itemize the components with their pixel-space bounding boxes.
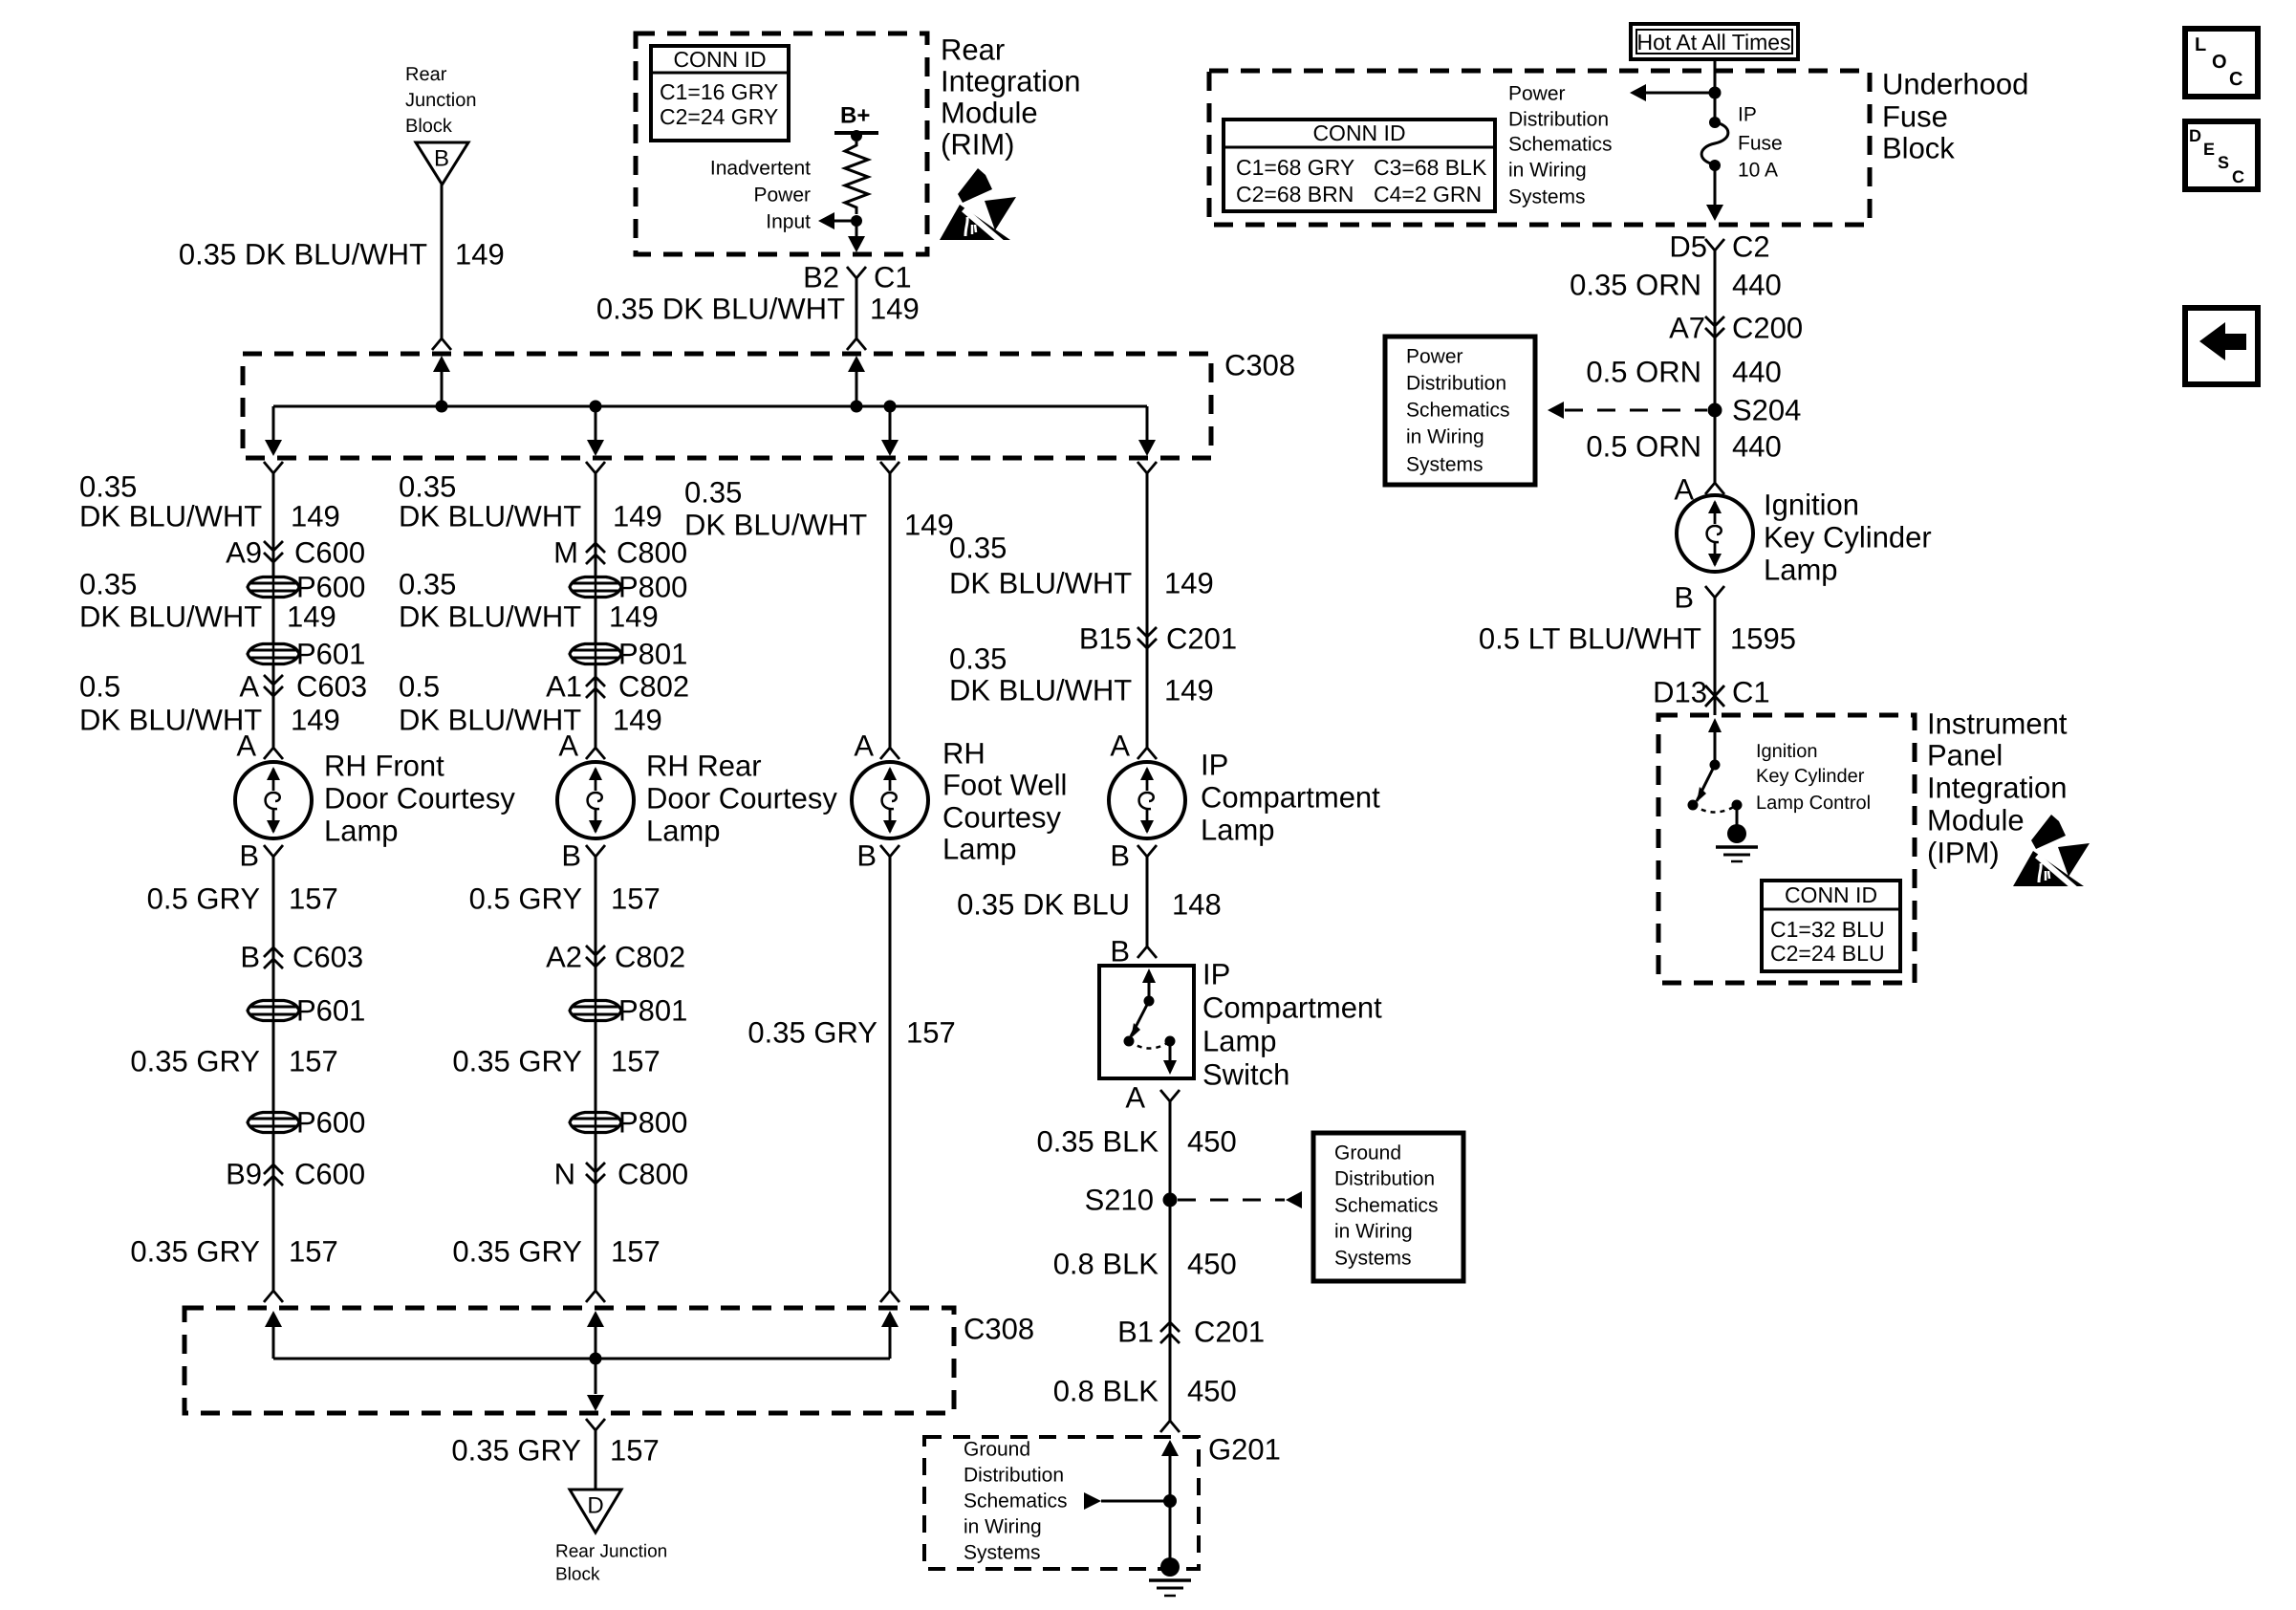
svg-text:CONN ID: CONN ID xyxy=(673,47,766,72)
svg-text:0.35 DK BLU/WHT: 0.35 DK BLU/WHT xyxy=(179,238,427,272)
svg-text:B: B xyxy=(1110,935,1130,968)
svg-text:A1: A1 xyxy=(546,670,582,704)
switch internal input pin arrow xyxy=(1142,968,1156,983)
arrow branch1 into bottom C308 xyxy=(265,1311,282,1327)
svg-text:Systems: Systems xyxy=(1406,454,1484,476)
svg-text:0.35 GRY: 0.35 GRY xyxy=(130,1045,260,1078)
wire branch2 through bottom C308 to exit xyxy=(595,1359,597,1394)
svg-text:0.35: 0.35 xyxy=(79,470,137,504)
svg-text:0.5 GRY: 0.5 GRY xyxy=(469,882,582,916)
arrow into C308 bus (B wire) xyxy=(433,356,450,372)
wire 149 from triangle B down to C308 xyxy=(441,185,444,338)
lamp control contact node (left) xyxy=(1688,800,1699,811)
svg-text:P601: P601 xyxy=(296,638,365,671)
reference box Ground Distribution Schematics in Wiring Systems (right) xyxy=(1313,1133,1463,1281)
LOC reference box xyxy=(2185,29,2258,97)
svg-text:N: N xyxy=(554,1158,575,1191)
svg-text:0.35: 0.35 xyxy=(684,476,742,510)
svg-text:B+: B+ xyxy=(840,103,870,129)
wire from Hot At All Times into fuse block xyxy=(1714,59,1717,120)
wire branch2 to rear junction block D xyxy=(595,1430,597,1490)
svg-text:0.35: 0.35 xyxy=(949,642,1007,676)
wire branch1 segment P600-P601 xyxy=(272,598,275,642)
svg-text:C603: C603 xyxy=(296,670,367,704)
svg-text:IP: IP xyxy=(1202,958,1230,991)
pass-through P801 (branch2 lower) xyxy=(570,1001,621,1021)
svg-text:Power: Power xyxy=(1508,83,1566,105)
switch internal output pin arrow xyxy=(1169,1041,1172,1063)
svg-text:0.35 GRY: 0.35 GRY xyxy=(452,1235,582,1269)
svg-text:Lamp: Lamp xyxy=(324,815,399,848)
svg-text:S204: S204 xyxy=(1732,394,1801,427)
svg-text:S: S xyxy=(2218,153,2229,172)
svg-text:P801: P801 xyxy=(618,994,687,1028)
svg-text:157: 157 xyxy=(289,1235,338,1269)
svg-text:Distribution: Distribution xyxy=(964,1465,1064,1487)
switch box IP Compartment Lamp Switch xyxy=(1099,966,1194,1078)
svg-text:A: A xyxy=(239,670,259,704)
svg-text:P800: P800 xyxy=(618,571,687,604)
svg-text:Integration: Integration xyxy=(1927,772,2068,805)
ground symbol inside IPM xyxy=(1736,805,1739,825)
node junction branch2 on bus xyxy=(590,401,602,413)
svg-text:Power: Power xyxy=(1406,346,1463,368)
svg-text:C1: C1 xyxy=(1732,676,1770,709)
svg-text:0.5 GRY: 0.5 GRY xyxy=(147,882,260,916)
svg-text:0.35 GRY: 0.35 GRY xyxy=(747,1016,877,1050)
svg-text:157: 157 xyxy=(906,1016,956,1050)
svg-text:A2: A2 xyxy=(546,941,582,974)
svg-text:B1: B1 xyxy=(1117,1316,1154,1349)
switch internal pivot node xyxy=(1144,996,1155,1007)
lamp RH Front Door Courtesy Lamp xyxy=(235,762,312,838)
svg-text:0.5: 0.5 xyxy=(79,670,120,704)
svg-text:B2: B2 xyxy=(803,261,839,294)
pass-through P600 (branch1 lower) xyxy=(248,1113,299,1133)
switch internal contact node (left) xyxy=(1124,1036,1135,1047)
svg-text:Power: Power xyxy=(753,185,811,207)
back-arrow box xyxy=(2185,308,2258,384)
ground symbol G201 xyxy=(1160,1557,1180,1577)
connector chevron branch4 below C308 xyxy=(1137,462,1157,473)
svg-text:C: C xyxy=(2232,167,2244,186)
svg-text:DK BLU/WHT: DK BLU/WHT xyxy=(949,567,1132,600)
svg-text:0.35: 0.35 xyxy=(399,470,456,504)
svg-text:P800: P800 xyxy=(618,1106,687,1140)
switch Ignition Key Cylinder Lamp Control pivot node xyxy=(1710,760,1721,771)
wire branch3 exit from C308 xyxy=(889,406,892,442)
svg-text:C600: C600 xyxy=(294,536,365,570)
svg-text:C603: C603 xyxy=(292,941,363,974)
svg-text:Ground: Ground xyxy=(1334,1142,1401,1164)
arrow branch2 exits bottom C308 xyxy=(587,1395,604,1411)
wire branch2 segment to lamp xyxy=(595,665,597,748)
svg-text:Fuse: Fuse xyxy=(1882,100,1948,134)
lamp RH Foot Well Courtesy Lamp xyxy=(852,762,928,838)
arrow to power distribution (left) xyxy=(1630,84,1646,101)
svg-text:149: 149 xyxy=(455,238,505,272)
arrow to Ground Distribution reference (left-pointing) xyxy=(1286,1191,1302,1208)
svg-text:C1=16 GRY: C1=16 GRY xyxy=(660,79,778,104)
svg-text:A: A xyxy=(854,729,874,763)
svg-text:149: 149 xyxy=(291,704,340,737)
svg-text:D: D xyxy=(587,1493,603,1519)
wire branch2 segment to P800 xyxy=(595,473,597,576)
wire branch2 to bottom C308 xyxy=(595,1134,597,1291)
module box Instrument Panel Integration Module dashed xyxy=(1658,715,1915,983)
svg-text:Underhood: Underhood xyxy=(1882,68,2028,101)
wire branch2 below lamp xyxy=(595,857,597,999)
svg-text:Lamp: Lamp xyxy=(1201,814,1275,847)
connector chevron branch3 below C308 xyxy=(880,462,899,473)
svg-text:Key Cylinder: Key Cylinder xyxy=(1756,766,1865,787)
svg-text:(IPM): (IPM) xyxy=(1927,837,2000,870)
svg-text:Lamp: Lamp xyxy=(942,833,1017,866)
node junction on ground wire xyxy=(1163,1494,1177,1508)
svg-text:Lamp Control: Lamp Control xyxy=(1756,793,1871,814)
wire branch2 exit from C308 xyxy=(595,406,597,442)
svg-text:C2: C2 xyxy=(1732,230,1770,264)
svg-text:Key Cylinder: Key Cylinder xyxy=(1764,521,1932,555)
B+ terminal bar and node xyxy=(834,131,878,135)
svg-text:Distribution: Distribution xyxy=(1508,109,1609,131)
wire branch2 segment P800-P801 xyxy=(595,598,597,642)
svg-text:DK BLU/WHT: DK BLU/WHT xyxy=(79,704,262,737)
svg-text:O: O xyxy=(2212,52,2227,73)
svg-text:IP: IP xyxy=(1201,749,1228,782)
svg-text:Schematics: Schematics xyxy=(1508,134,1613,156)
svg-text:0.5 ORN: 0.5 ORN xyxy=(1586,356,1701,389)
svg-text:148: 148 xyxy=(1172,888,1222,922)
svg-text:149: 149 xyxy=(613,704,662,737)
svg-text:0.35: 0.35 xyxy=(79,568,137,601)
svg-text:C4=2 GRN: C4=2 GRN xyxy=(1374,182,1482,207)
svg-text:157: 157 xyxy=(611,882,661,916)
svg-text:S210: S210 xyxy=(1085,1184,1154,1217)
svg-text:B: B xyxy=(434,146,449,172)
svg-text:Courtesy: Courtesy xyxy=(942,801,1062,835)
svg-text:Block: Block xyxy=(405,116,453,137)
svg-text:C3=68 BLK: C3=68 BLK xyxy=(1374,155,1487,180)
svg-text:149: 149 xyxy=(1164,674,1214,707)
connector Y symbol below RIM (B2/C1) xyxy=(847,267,866,278)
svg-text:0.5: 0.5 xyxy=(399,670,440,704)
resistor (inadvertent power pull-up) xyxy=(845,141,868,214)
pass-through P801 (branch2 upper) xyxy=(570,644,621,664)
svg-text:P801: P801 xyxy=(618,638,687,671)
connector chevron at C308 entry (RIM wire) xyxy=(847,338,866,350)
svg-text:Instrument: Instrument xyxy=(1927,707,2068,741)
svg-text:C308: C308 xyxy=(964,1313,1034,1346)
svg-text:450: 450 xyxy=(1187,1375,1237,1408)
svg-text:C200: C200 xyxy=(1732,312,1803,345)
node splice S204 xyxy=(1708,403,1722,418)
wire lamp to IPM xyxy=(1714,598,1717,715)
wire branch1 segment P601-P600 lower xyxy=(272,1022,275,1111)
svg-text:149: 149 xyxy=(870,293,920,326)
svg-text:A: A xyxy=(558,729,578,763)
svg-text:DK BLU/WHT: DK BLU/WHT xyxy=(399,600,581,634)
svg-text:B: B xyxy=(240,941,260,974)
svg-text:C800: C800 xyxy=(617,1158,688,1191)
node junction branch2 on bottom bus xyxy=(590,1353,602,1365)
svg-text:Panel: Panel xyxy=(1927,739,2003,772)
pass-through P600 (branch1 upper) xyxy=(248,577,299,598)
svg-text:B: B xyxy=(561,839,581,873)
connector C308 dashed box (top) xyxy=(243,354,1211,458)
svg-text:Ground: Ground xyxy=(964,1439,1030,1461)
arrow branch3 into bottom C308 xyxy=(881,1311,899,1327)
power tag box Hot At All Times xyxy=(1631,24,1798,59)
arrow from reference text to ground wire xyxy=(1084,1492,1101,1510)
svg-text:CONN ID: CONN ID xyxy=(1312,120,1405,145)
lamp Ignition Key Cylinder Lamp xyxy=(1677,495,1753,572)
module box Underhood Fuse Block dashed xyxy=(1209,71,1870,225)
svg-text:0.35 GRY: 0.35 GRY xyxy=(130,1235,260,1269)
CONN ID box (IPM) xyxy=(1762,881,1900,971)
wire branch1 segment to P600 xyxy=(272,473,275,576)
connector chevron branch2 below C308 xyxy=(586,462,605,473)
svg-text:DK BLU/WHT: DK BLU/WHT xyxy=(684,509,867,542)
wire from resistor to RIM pin B2 xyxy=(856,221,858,241)
module box Rear Integration Module (RIM) dashed xyxy=(636,33,927,254)
svg-text:157: 157 xyxy=(611,1235,661,1269)
svg-text:(RIM): (RIM) xyxy=(941,128,1014,162)
node at resistor bottom xyxy=(851,215,862,227)
svg-text:149: 149 xyxy=(904,509,954,542)
svg-text:A: A xyxy=(1125,1081,1145,1115)
wire branch4 segment to lamp xyxy=(1146,473,1149,748)
svg-text:0.35 BLK: 0.35 BLK xyxy=(1036,1125,1159,1159)
svg-text:C802: C802 xyxy=(615,941,685,974)
CONN ID box (RIM) xyxy=(651,46,789,141)
svg-text:Door Courtesy: Door Courtesy xyxy=(324,782,515,816)
svg-text:0.8 BLK: 0.8 BLK xyxy=(1053,1248,1159,1281)
ESD symbol (IPM) xyxy=(2013,851,2084,886)
svg-text:157: 157 xyxy=(289,1045,338,1078)
svg-text:0.5 ORN: 0.5 ORN xyxy=(1586,430,1701,464)
wire branch4 exit from C308 xyxy=(1146,406,1149,442)
svg-text:450: 450 xyxy=(1187,1125,1237,1159)
svg-text:Schematics: Schematics xyxy=(1406,400,1510,422)
svg-text:157: 157 xyxy=(611,1045,661,1078)
svg-text:C802: C802 xyxy=(618,670,689,704)
dashed reference line from S210 xyxy=(1178,1199,1285,1202)
svg-text:0.35 GRY: 0.35 GRY xyxy=(452,1045,582,1078)
pass-through P601 (branch1 lower) xyxy=(248,1001,299,1021)
svg-text:Systems: Systems xyxy=(1334,1248,1412,1270)
wire bus inside bottom C308 xyxy=(273,1358,890,1360)
svg-text:DK BLU/WHT: DK BLU/WHT xyxy=(399,704,581,737)
svg-text:B: B xyxy=(1674,581,1694,615)
connector chevron branch2 above bottom C308 xyxy=(586,1291,605,1302)
arrow to power distribution reference (left-pointing) xyxy=(1548,402,1564,419)
svg-text:Switch: Switch xyxy=(1202,1058,1289,1092)
svg-text:Distribution: Distribution xyxy=(1334,1168,1435,1190)
svg-text:Schematics: Schematics xyxy=(1334,1195,1439,1217)
svg-text:157: 157 xyxy=(289,882,338,916)
svg-text:DK BLU/WHT: DK BLU/WHT xyxy=(79,500,262,533)
reference box Power Distribution Schematics in Wiring Systems xyxy=(1385,337,1535,485)
wire branch2 segment P801-P800 lower xyxy=(595,1022,597,1111)
svg-text:Rear: Rear xyxy=(941,33,1005,67)
svg-text:B: B xyxy=(1110,839,1130,873)
svg-text:Systems: Systems xyxy=(1508,186,1586,208)
wire C201 to G201 xyxy=(1169,1320,1172,1421)
svg-text:440: 440 xyxy=(1732,356,1782,389)
svg-text:L: L xyxy=(2195,34,2206,55)
off-page triangle D (Rear Junction Block) xyxy=(570,1490,621,1533)
svg-text:1595: 1595 xyxy=(1730,622,1796,656)
svg-text:Door Courtesy: Door Courtesy xyxy=(646,782,837,816)
svg-text:B: B xyxy=(856,839,877,873)
svg-text:157: 157 xyxy=(610,1434,660,1468)
svg-text:D: D xyxy=(2189,126,2201,145)
lamp control switch blade xyxy=(1697,765,1715,801)
wire switch to S210 xyxy=(1169,1101,1172,1200)
IPM internal input arrow xyxy=(1708,718,1722,732)
svg-text:in Wiring: in Wiring xyxy=(1334,1221,1413,1243)
svg-text:DK BLU/WHT: DK BLU/WHT xyxy=(399,500,581,533)
node junction branch3 on bus xyxy=(884,401,897,413)
svg-text:Block: Block xyxy=(1882,132,1955,165)
svg-text:Inadvertent: Inadvertent xyxy=(710,158,811,180)
switch internal contact node (right) xyxy=(1165,1036,1176,1047)
wire S210 to C201 xyxy=(1169,1200,1172,1320)
arrow at RIM boundary (B2) xyxy=(848,236,865,252)
svg-text:Lamp: Lamp xyxy=(1202,1025,1277,1058)
lamp RH Rear Door Courtesy Lamp xyxy=(557,762,634,838)
wire branch3 long segment to lamp xyxy=(889,473,892,748)
connector chevron branch1 above bottom C308 xyxy=(264,1291,283,1302)
svg-text:Hot At All Times: Hot At All Times xyxy=(1636,30,1790,54)
svg-text:C1=68 GRY: C1=68 GRY xyxy=(1236,155,1354,180)
CONN ID box (Underhood) xyxy=(1224,120,1495,211)
off-page triangle B (Rear Junction Block) xyxy=(416,142,468,185)
svg-text:C308: C308 xyxy=(1224,349,1295,382)
svg-text:C2=68 BRN: C2=68 BRN xyxy=(1236,182,1354,207)
svg-text:0.5 LT BLU/WHT: 0.5 LT BLU/WHT xyxy=(1479,622,1701,656)
svg-text:C2=24 GRY: C2=24 GRY xyxy=(660,104,778,129)
pass-through P800 (branch2 upper) xyxy=(570,577,621,598)
svg-text:C800: C800 xyxy=(617,536,687,570)
wire D5 to C200 xyxy=(1714,250,1717,483)
wire branch1 to bottom C308 xyxy=(272,1134,275,1291)
svg-text:A9: A9 xyxy=(226,536,262,570)
node junction RIM wire on bus xyxy=(851,401,863,413)
wire lamp4 to switch xyxy=(1146,857,1149,946)
connector chevron branch2 below bottom C308 xyxy=(586,1419,605,1430)
svg-text:0.35 DK BLU/WHT: 0.35 DK BLU/WHT xyxy=(596,293,845,326)
svg-text:C201: C201 xyxy=(1166,622,1237,656)
connector chevron at C308 entry (B wire) xyxy=(432,338,451,350)
svg-text:Junction: Junction xyxy=(405,90,477,111)
svg-text:G201: G201 xyxy=(1208,1433,1281,1467)
node junction at fuse feed xyxy=(1709,87,1722,99)
node junction B wire on bus xyxy=(436,401,448,413)
svg-text:10 A: 10 A xyxy=(1738,160,1778,182)
svg-text:Rear Junction: Rear Junction xyxy=(555,1542,667,1562)
svg-text:B9: B9 xyxy=(226,1158,262,1191)
svg-text:D13: D13 xyxy=(1653,676,1707,709)
wire branch1 below lamp xyxy=(272,857,275,999)
arrow Input (left) xyxy=(818,212,834,229)
svg-text:C600: C600 xyxy=(294,1158,365,1191)
svg-text:DK BLU/WHT: DK BLU/WHT xyxy=(79,600,262,634)
svg-text:E: E xyxy=(2203,140,2215,159)
dashed reference line to S204 xyxy=(1565,409,1707,412)
ESD symbol (RIM) xyxy=(940,205,1010,240)
svg-text:P600: P600 xyxy=(296,571,365,604)
svg-text:CONN ID: CONN ID xyxy=(1785,882,1877,907)
svg-text:IP: IP xyxy=(1738,104,1757,126)
svg-text:A: A xyxy=(236,729,256,763)
svg-text:in Wiring: in Wiring xyxy=(1406,426,1484,448)
svg-text:Lamp: Lamp xyxy=(646,815,721,848)
svg-text:RH Front: RH Front xyxy=(324,750,444,783)
pass-through P800 (branch2 lower) xyxy=(570,1113,621,1133)
svg-text:149: 149 xyxy=(287,600,336,634)
svg-text:D5: D5 xyxy=(1669,230,1707,264)
fuse IP Fuse 10 A xyxy=(1709,117,1721,128)
svg-text:Module: Module xyxy=(941,97,1038,130)
wire bus inside C308 xyxy=(273,405,1147,408)
svg-text:149: 149 xyxy=(1164,567,1214,600)
svg-text:RH Rear: RH Rear xyxy=(646,750,762,783)
svg-text:B15: B15 xyxy=(1079,622,1132,656)
svg-text:P601: P601 xyxy=(296,994,365,1028)
svg-text:DK BLU/WHT: DK BLU/WHT xyxy=(949,674,1132,707)
svg-text:0.35 GRY: 0.35 GRY xyxy=(451,1434,581,1468)
svg-text:B: B xyxy=(239,839,259,873)
svg-text:Distribution: Distribution xyxy=(1406,373,1506,395)
wire branch3 below lamp xyxy=(889,857,892,1291)
svg-text:A: A xyxy=(1110,729,1130,763)
svg-text:in Wiring: in Wiring xyxy=(1508,160,1587,182)
svg-text:0.35 DK BLU: 0.35 DK BLU xyxy=(957,888,1130,922)
svg-text:Rear: Rear xyxy=(405,64,447,85)
svg-text:P600: P600 xyxy=(296,1106,365,1140)
lamp control contact node (right) xyxy=(1732,800,1743,811)
svg-text:C1: C1 xyxy=(874,261,912,294)
node splice S210 xyxy=(1163,1193,1178,1207)
svg-text:C201: C201 xyxy=(1194,1316,1265,1349)
switch dashed travel arc xyxy=(1129,1041,1170,1049)
svg-text:0.35: 0.35 xyxy=(949,532,1007,565)
svg-text:440: 440 xyxy=(1732,430,1782,464)
switch blade xyxy=(1131,1001,1149,1036)
svg-text:0.35: 0.35 xyxy=(399,568,456,601)
svg-text:Input: Input xyxy=(766,211,811,233)
arrow into C308 bus (RIM wire) xyxy=(848,356,865,372)
svg-text:149: 149 xyxy=(609,600,659,634)
svg-text:Systems: Systems xyxy=(964,1542,1041,1564)
svg-text:Compartment: Compartment xyxy=(1201,781,1380,815)
svg-text:0.8 BLK: 0.8 BLK xyxy=(1053,1375,1159,1408)
svg-text:M: M xyxy=(553,536,578,570)
lamp IP Compartment Lamp xyxy=(1109,762,1185,838)
wire fuse to D5 with exit arrow xyxy=(1714,165,1717,205)
arrow into G201 xyxy=(1161,1440,1179,1456)
svg-text:Integration: Integration xyxy=(941,65,1081,98)
svg-text:Fuse: Fuse xyxy=(1738,133,1783,155)
svg-text:C1=32 BLU: C1=32 BLU xyxy=(1770,917,1885,942)
pass-through P601 (branch1 upper) xyxy=(248,644,299,664)
svg-text:C2=24 BLU: C2=24 BLU xyxy=(1770,941,1885,966)
DESC reference box xyxy=(2185,121,2258,189)
svg-text:149: 149 xyxy=(613,500,662,533)
wire branch1 segment to lamp xyxy=(272,665,275,748)
